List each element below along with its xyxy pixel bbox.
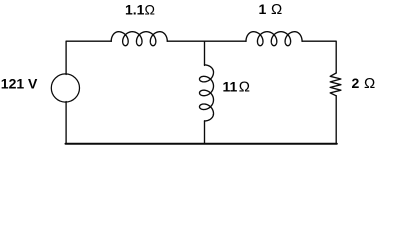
wire right vertical bottom stub [335, 96, 337, 144]
voltage source V1 circle [51, 74, 79, 102]
wire middle vertical bottom stub [204, 121, 206, 144]
wire top-left segment from source to L1 [66, 41, 111, 74]
wire top-right segment L2 to R1 [302, 41, 336, 73]
inductor L1 1.1ohm coil [111, 32, 167, 46]
wire top-middle segment L1 to node [167, 40, 246, 42]
svg-text:2 Ω: 2 Ω [352, 75, 376, 92]
svg-text:11Ω: 11Ω [223, 78, 250, 95]
svg-text:1 Ω: 1 Ω [259, 1, 283, 18]
inductor L2 1ohm coil [246, 32, 302, 46]
resistor R1 2ohm zigzag [330, 73, 341, 96]
inductor L3 11ohm vertical coil [200, 65, 214, 121]
svg-text:1.1Ω: 1.1Ω [125, 1, 155, 17]
svg-text:121 V: 121 V [1, 75, 38, 91]
wire bottom return [66, 143, 337, 145]
node T junction: middle vertical top stub [204, 41, 206, 65]
wire left vertical bottom stub [65, 102, 67, 144]
